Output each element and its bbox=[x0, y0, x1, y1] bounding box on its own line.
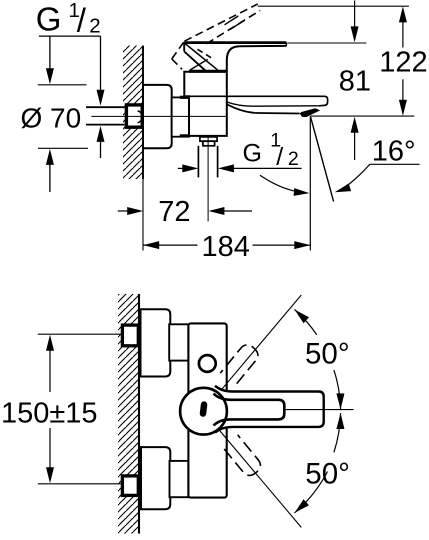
upper 50deg radius line bbox=[220, 295, 302, 392]
lower 50deg arc bbox=[295, 413, 341, 513]
lever centerline bbox=[285, 409, 354, 411]
dimension 81 top arrow bbox=[354, 1, 356, 29]
lever dome outline bbox=[180, 388, 227, 435]
handle base rim line bbox=[190, 59, 208, 70]
aerator outlet bbox=[300, 109, 319, 117]
extension line handle top bbox=[287, 42, 366, 44]
svg-text:50°: 50° bbox=[305, 458, 350, 491]
union nut top bbox=[169, 324, 188, 360]
raised handle (dashed) base front rim bbox=[198, 49, 215, 59]
wall G1/2 leader underline bbox=[39, 35, 101, 37]
spout bottom line bbox=[227, 104, 300, 113]
shower outlet pipe bbox=[198, 146, 217, 178]
diameter 70 top arrow bbox=[49, 36, 51, 69]
svg-text:G: G bbox=[36, 1, 62, 38]
union square bottom (front view) bbox=[122, 476, 138, 496]
svg-text:50°: 50° bbox=[305, 338, 350, 371]
dashed lever position lower bbox=[223, 435, 264, 479]
G1/2 lower label left arrow bbox=[178, 167, 184, 169]
16deg leader underline bbox=[364, 164, 420, 170]
body top thick edge bbox=[189, 70, 227, 73]
raised handle (dashed) blade top edge bbox=[184, 4, 257, 41]
16deg left arc arrow bbox=[260, 175, 306, 193]
spout top line bbox=[184, 96, 327, 106]
dimension 72 arrows bbox=[118, 210, 129, 212]
outlet collar wide bbox=[200, 137, 217, 141]
svg-text:122: 122 bbox=[379, 46, 427, 78]
handle left edge bbox=[183, 43, 185, 52]
extension line spout outlet level bbox=[310, 115, 414, 117]
svg-text:16°: 16° bbox=[372, 135, 416, 167]
150 dimension line with arrows bbox=[46, 335, 54, 351]
horizontal centerline through body bbox=[91, 115, 226, 117]
svg-text:2: 2 bbox=[89, 15, 100, 38]
neck adapter bbox=[172, 97, 189, 136]
wall union square bbox=[126, 105, 142, 127]
svg-text:Ø 70: Ø 70 bbox=[21, 103, 82, 134]
handle support cover bbox=[227, 46, 287, 72]
lower 50deg radius line bbox=[220, 431, 302, 528]
wall G1/2 up arrow bbox=[97, 126, 105, 142]
svg-text:81: 81 bbox=[339, 66, 371, 98]
spout mid line bbox=[227, 102, 319, 106]
wall face extension line down to 184 dimension bbox=[142, 179, 144, 251]
16deg slanted line bbox=[311, 117, 334, 202]
outlet collar narrow bbox=[203, 141, 215, 146]
svg-text:150±15: 150±15 bbox=[1, 397, 98, 429]
escutcheon bottom (front view) bbox=[141, 447, 170, 509]
union nut bottom bbox=[170, 461, 189, 497]
svg-text:/: / bbox=[77, 2, 87, 39]
150 dimension extension lines bbox=[38, 334, 121, 484]
temperature stop circle bbox=[199, 355, 216, 372]
outlet vertical extension line bbox=[309, 116, 311, 250]
dashed lever position upper bbox=[220, 342, 261, 386]
handle lever blade (solid) bbox=[184, 41, 286, 44]
blade tip face bbox=[285, 43, 287, 46]
svg-text:72: 72 bbox=[158, 196, 190, 228]
outlet vertical centerline bbox=[207, 135, 209, 221]
mixer body (front view) bbox=[188, 323, 226, 497]
diameter 70 top extension line bbox=[38, 84, 87, 86]
lever dome (fill) bbox=[180, 388, 227, 435]
mixer body (side view) bbox=[184, 72, 227, 136]
svg-text:G: G bbox=[243, 139, 262, 167]
lever blade (front view) bbox=[215, 386, 324, 433]
upper 50deg arc bbox=[295, 310, 341, 410]
svg-text:184: 184 bbox=[202, 231, 250, 263]
wall face line (side view) bbox=[142, 46, 144, 180]
neck tab bottom bbox=[180, 134, 189, 137]
dimension 122 line bbox=[399, 6, 407, 22]
union square top (front view) bbox=[122, 325, 138, 346]
raised handle (dashed) blade bottom edge bbox=[206, 10, 260, 43]
wall G1/2 down arrow bbox=[100, 36, 102, 91]
raised handle inner dash 1 bbox=[225, 16, 239, 25]
raised handle (dashed) base bottom edge bbox=[172, 59, 182, 69]
lever slot bbox=[214, 394, 285, 426]
wall hatching (side view) bbox=[123, 46, 143, 180]
raised handle inner dash 2 bbox=[230, 21, 244, 30]
handle skirt inner diagonal bbox=[185, 44, 218, 70]
dome keyhole slot bbox=[199, 401, 207, 417]
escutcheon top (front view) bbox=[141, 309, 171, 376]
neck tab top bbox=[180, 96, 189, 99]
svg-text:2: 2 bbox=[288, 148, 299, 170]
G1/2 lower label right arrow and underline bbox=[218, 164, 234, 172]
wall hatching (front view) bbox=[118, 294, 139, 534]
handle skirt bottom edge bbox=[184, 51, 205, 70]
wall face line (front view) bbox=[138, 294, 140, 534]
svg-text:/: / bbox=[276, 143, 283, 171]
dimension 184 line bbox=[143, 244, 310, 246]
16deg right arc arrow bbox=[338, 171, 364, 192]
dimension 81 bottom arrow bbox=[351, 117, 359, 133]
diameter 70 bottom arrow bbox=[46, 149, 54, 165]
extension line raised handle top bbox=[258, 5, 409, 7]
union cone arc bbox=[138, 111, 143, 123]
supply pipe in wall (G1/2 thread) bbox=[86, 107, 125, 124]
raised handle (dashed) base left edge bbox=[172, 41, 185, 59]
diameter 70 bottom extension line bbox=[38, 147, 88, 149]
escutcheon (side view) bbox=[143, 85, 172, 148]
